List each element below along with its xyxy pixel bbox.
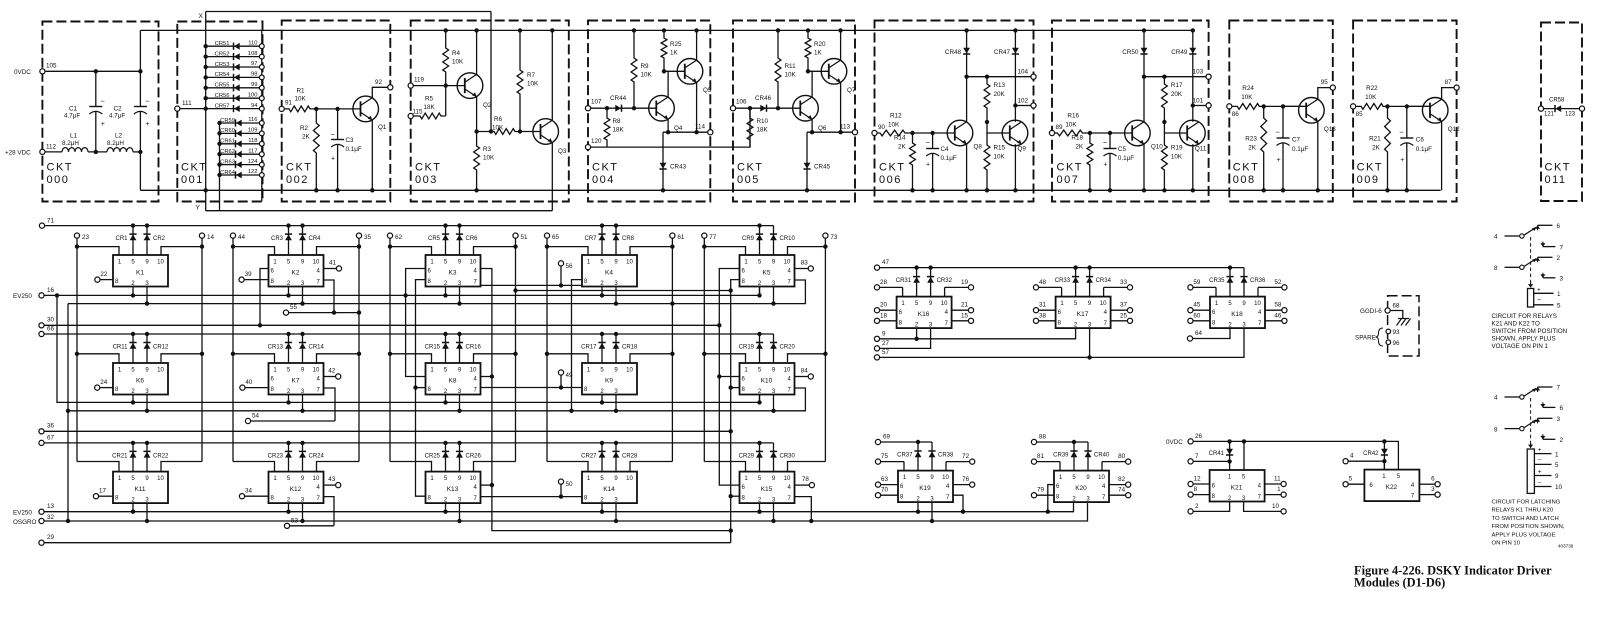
terminal 86: [1227, 104, 1232, 109]
wire K21 pin2 lead: [1193, 502, 1229, 512]
diode CR50: [1143, 30, 1145, 76]
wire 5 K22 lead: [1348, 483, 1364, 485]
svg-text:40: 40: [245, 379, 253, 386]
junction K2 pin6 30line: [258, 323, 262, 327]
wire K13 pin1 lead: [390, 462, 432, 472]
svg-text:57: 57: [882, 349, 890, 356]
wire 54 line: [251, 420, 335, 422]
spare module box: [1388, 296, 1419, 356]
junction C6 bottom: [1405, 188, 1409, 192]
junction pin8 column K15: [729, 494, 733, 498]
brace spare: [1376, 328, 1384, 346]
wire 63 lead: [881, 484, 898, 486]
junction K7 pin2: [286, 400, 290, 404]
svg-text:10K: 10K: [527, 81, 539, 88]
svg-text:2K: 2K: [302, 134, 311, 141]
svg-text:2: 2: [1195, 503, 1199, 510]
svg-text:CKT: CKT: [415, 162, 442, 174]
svg-text:8.2μH: 8.2μH: [107, 140, 124, 147]
svg-text:Q8: Q8: [974, 144, 983, 151]
svg-text:CKT: CKT: [286, 162, 313, 174]
svg-text:10: 10: [1098, 475, 1105, 481]
diode CR60: [220, 132, 262, 134]
junction K10 pin3: [771, 409, 775, 413]
svg-text:SPARE: SPARE: [1355, 335, 1376, 342]
wire column 51: [515, 238, 517, 461]
wire 28 lead: [880, 286, 903, 288]
svg-text:CR8: CR8: [622, 236, 635, 242]
wire R5 riser: [445, 86, 447, 116]
svg-text:10K: 10K: [483, 155, 495, 162]
junction R7 top rail: [518, 28, 522, 32]
svg-text:CKT: CKT: [1233, 162, 1260, 174]
wire contact2 stub4: [1505, 396, 1520, 398]
svg-text:10: 10: [1100, 301, 1107, 307]
terminal 26: [1188, 439, 1193, 444]
wire Q12 emitter: [1441, 122, 1443, 191]
wire 59 pin1 bend: [1215, 287, 1217, 296]
junction R4 base node: [444, 83, 448, 87]
svg-text:005: 005: [737, 174, 760, 186]
wire K13 pin4 lead: [481, 484, 492, 486]
resistor R17: [1162, 77, 1168, 122]
wire contact1 line3: [1543, 277, 1556, 279]
svg-text:CR33: CR33: [1055, 278, 1071, 284]
wire 1 K21 lead: [1265, 494, 1281, 496]
svg-text:30: 30: [47, 317, 55, 324]
coil c2 arrow: [1530, 443, 1532, 448]
junction column 65 row1: [545, 244, 549, 248]
svg-text:82: 82: [1118, 476, 1126, 483]
terminal 90: [872, 130, 877, 135]
wire 6 K22 lead: [1419, 483, 1435, 485]
wire K11 pin10 lead: [161, 462, 202, 472]
svg-text:K22: K22: [1386, 484, 1398, 491]
wire R6 to Q3 base: [520, 131, 541, 133]
svg-text:39: 39: [245, 271, 253, 278]
svg-text:CIRCUIT FOR RELAYS: CIRCUIT FOR RELAYS: [1492, 313, 1557, 320]
wire K17 pin3 drop: [1089, 328, 1091, 357]
diode CR22: [146, 443, 148, 472]
terminal 27: [874, 346, 879, 351]
wire 83 to pin4: [795, 268, 809, 270]
junction C1 top: [94, 69, 98, 73]
wire CR44 to Q4 base: [634, 107, 656, 109]
svg-text:CR59: CR59: [220, 118, 235, 124]
svg-text:2K: 2K: [1248, 145, 1257, 152]
wire contact2 line7: [1538, 386, 1553, 388]
svg-text:46: 46: [1274, 312, 1282, 319]
resistor R21: [1385, 106, 1391, 190]
svg-text:42: 42: [328, 368, 336, 375]
terminal 18: [874, 318, 879, 323]
junction CR47 top rail: [1013, 28, 1017, 32]
svg-text:101: 101: [1193, 97, 1204, 104]
terminal 76: [970, 482, 975, 487]
svg-text:Q10: Q10: [1151, 144, 1163, 151]
svg-text:C2: C2: [114, 106, 123, 113]
terminal 66: [39, 331, 44, 336]
svg-text:ON PIN 10: ON PIN 10: [1492, 541, 1521, 547]
terminal 120: [585, 145, 590, 150]
junction diode bus CR61: [217, 142, 221, 146]
svg-text:14: 14: [207, 234, 215, 241]
junction R21 top: [1385, 104, 1389, 108]
wire Q8 emitter drop: [966, 144, 968, 190]
junction K11 pin3: [145, 519, 149, 523]
svg-text:K14: K14: [603, 486, 615, 493]
svg-text:007: 007: [1057, 174, 1080, 186]
terminal 53: [284, 523, 289, 528]
svg-text:CR32: CR32: [937, 278, 953, 284]
svg-text:71: 71: [47, 218, 55, 225]
svg-text:009: 009: [1357, 174, 1380, 186]
diode CR51: [206, 45, 262, 47]
terminal 33: [1127, 285, 1132, 290]
wire 53 line: [290, 525, 334, 527]
wire K8 pin3 drop: [459, 395, 461, 411]
svg-text:Q4: Q4: [674, 125, 683, 132]
terminal 107: [585, 106, 590, 111]
wire K12 pin10 lead: [317, 462, 360, 472]
svg-text:CR39: CR39: [1053, 453, 1069, 459]
svg-text:+: +: [1538, 468, 1542, 475]
diode CR4: [302, 226, 304, 255]
wire K8 pin1 lead: [390, 354, 432, 363]
wire 111 to diode bus: [180, 108, 206, 110]
junction K20 pin6 EV250: [1046, 510, 1050, 514]
svg-text:61: 61: [677, 234, 685, 241]
wire 52 pin10 bend: [1257, 287, 1259, 296]
wire K3 pin4 column: [481, 269, 731, 531]
terminal 57: [874, 355, 879, 360]
junction Q2 collector rail: [474, 28, 478, 32]
svg-text:79: 79: [1037, 487, 1045, 494]
wire K10 pin2 drop: [759, 395, 761, 403]
junction K13 pin2: [443, 510, 447, 514]
resistor R25: [661, 30, 667, 71]
wire 25 lead: [1111, 320, 1128, 322]
terminal 63: [875, 482, 880, 487]
junction C5 top: [1108, 131, 1112, 135]
wire Q7 base link: [808, 70, 829, 72]
diode CR16: [459, 334, 461, 363]
wire pin3 bus row2: [68, 388, 805, 411]
terminal 32: [39, 518, 44, 523]
wire contact2 line3: [1538, 417, 1553, 419]
junction pin3 riser osgro: [66, 519, 70, 523]
diode CR14: [302, 334, 304, 363]
junction R20 top rail: [806, 28, 810, 32]
module CKT 011 box: [1541, 23, 1582, 202]
svg-text:120: 120: [591, 138, 602, 145]
wire K9 pin1 lead: [547, 354, 588, 363]
terminal 75: [875, 459, 880, 464]
diode CR1: [132, 226, 134, 255]
svg-text:K8: K8: [449, 378, 457, 385]
svg-text:GGDI-6: GGDI-6: [1360, 308, 1382, 315]
svg-text:CR20: CR20: [780, 345, 796, 351]
capacitor C2: [134, 71, 147, 152]
wire 31 lead: [1039, 309, 1056, 311]
terminal 105: [40, 69, 45, 74]
junction C2 top: [138, 69, 142, 73]
wire 68 to ground: [1390, 311, 1403, 319]
svg-text:K6: K6: [136, 378, 144, 385]
junction K10 pin2: [757, 400, 761, 404]
svg-text:−: −: [331, 130, 336, 139]
wire 69 line: [881, 441, 932, 443]
wire 37 lead: [1111, 309, 1128, 311]
junction pin3 riser row2: [66, 409, 70, 413]
svg-text:10: 10: [1555, 484, 1563, 491]
wire contact1 stub8: [1505, 266, 1520, 268]
svg-text:C5: C5: [1118, 146, 1127, 153]
svg-text:CR43: CR43: [670, 164, 687, 171]
svg-text:R1: R1: [297, 88, 306, 95]
svg-text:CKT: CKT: [1545, 162, 1572, 174]
terminal 61: [670, 233, 675, 238]
ground chassis: [1397, 319, 1411, 326]
junction Q13 emitter rail: [1316, 188, 1320, 192]
svg-text:−: −: [1538, 479, 1542, 486]
svg-text:123: 123: [1565, 112, 1576, 118]
wire coil c2 pin1: [1534, 453, 1551, 455]
svg-text:R18: R18: [1071, 135, 1083, 142]
junction K5 pin3: [771, 301, 775, 305]
svg-text:31: 31: [1039, 302, 1047, 309]
wire K5 pin8 column: [731, 280, 740, 543]
terminal 9: [874, 336, 879, 341]
wire column 77: [703, 238, 705, 461]
svg-text:113: 113: [840, 124, 851, 131]
svg-text:10: 10: [941, 301, 948, 307]
junction K5 pin2: [757, 293, 761, 297]
diode CR18: [615, 334, 617, 363]
svg-text:10: 10: [313, 476, 320, 482]
junction mid link pin8col: [729, 288, 733, 292]
svg-text:110: 110: [248, 40, 257, 46]
inductor L1: [62, 148, 88, 152]
wire X top bus: [206, 11, 491, 13]
terminal 58: [1282, 308, 1287, 313]
svg-text:+: +: [331, 156, 335, 163]
junction column 44 row1: [231, 244, 235, 248]
coil c1 arrow: [1530, 283, 1532, 288]
junction K4 pin3: [614, 301, 618, 305]
svg-text:0.1μF: 0.1μF: [1416, 146, 1432, 153]
svg-text:K2: K2: [292, 270, 300, 277]
relay K4: [582, 255, 637, 287]
junction CR23 bus: [286, 441, 290, 445]
wire coil c2 pin5: [1534, 463, 1551, 465]
diode CR13: [288, 334, 290, 363]
svg-text:0.1μF: 0.1μF: [941, 155, 957, 162]
svg-text:99: 99: [251, 82, 257, 88]
junction CR42 bottom: [1382, 459, 1386, 463]
wire contact2 stub8: [1505, 428, 1520, 430]
junction diode bus CR63: [217, 162, 221, 166]
junction K6 pin3: [145, 409, 149, 413]
terminal 19: [968, 285, 973, 290]
svg-text:116: 116: [248, 117, 257, 123]
wire Q9 collector riser: [1014, 106, 1016, 122]
svg-text:R25: R25: [670, 41, 682, 48]
svg-text:95: 95: [1321, 79, 1329, 86]
svg-text:R8: R8: [613, 118, 622, 125]
svg-text:37: 37: [1120, 302, 1128, 309]
wire ground return bottom rail: [140, 189, 1440, 191]
wire 41 to pin4: [324, 268, 337, 270]
svg-text:10K: 10K: [1065, 122, 1077, 129]
junction CR42 26line: [1382, 439, 1386, 443]
svg-text:006: 006: [879, 174, 902, 186]
terminal 17: [93, 494, 98, 499]
resistor R23: [1261, 106, 1267, 190]
terminal 15: [968, 318, 973, 323]
wire 74 lead: [1109, 494, 1126, 496]
wire K8 pin8 lead: [416, 387, 426, 389]
svg-text:18K: 18K: [424, 104, 436, 111]
wire contact2 line2: [1543, 438, 1556, 440]
wire EV250 line row1: [44, 287, 759, 296]
diode CR21: [132, 443, 134, 472]
svg-text:CR4: CR4: [309, 236, 322, 242]
junction CR27 bus: [600, 441, 604, 445]
diode CR10: [773, 226, 775, 255]
junction CR37 69line: [916, 440, 920, 444]
svg-text:R22: R22: [1366, 85, 1378, 92]
svg-text:41: 41: [329, 260, 337, 267]
terminal 91: [279, 106, 284, 111]
wire column 73: [824, 238, 826, 461]
transistor Q11: [1180, 120, 1206, 146]
svg-text:0.1μF: 0.1μF: [1118, 155, 1134, 162]
svg-text:CR30: CR30: [780, 453, 796, 459]
svg-text:R3: R3: [483, 146, 492, 153]
svg-text:VOLTAGE ON PIN 1: VOLTAGE ON PIN 1: [1492, 343, 1549, 350]
wire K4 pin8 column: [572, 280, 583, 411]
terminal 70: [875, 493, 880, 498]
svg-text:25: 25: [1120, 312, 1128, 319]
svg-text:Q9: Q9: [1018, 146, 1027, 153]
svg-text:0.1μF: 0.1μF: [1292, 146, 1308, 153]
svg-text:−: −: [1399, 128, 1404, 137]
svg-text:CR6: CR6: [466, 236, 479, 242]
wire EV250 line row3: [44, 503, 1073, 512]
wire 55 line: [289, 312, 359, 314]
junction CR24 bus: [300, 441, 304, 445]
resistor R11: [775, 30, 781, 108]
svg-text:8: 8: [1194, 486, 1198, 493]
junction R23 top: [1262, 104, 1266, 108]
wire 26 line: [1193, 441, 1398, 469]
svg-text:119: 119: [414, 77, 425, 84]
svg-text:CR63: CR63: [220, 159, 235, 165]
svg-text:33: 33: [1120, 279, 1128, 286]
contact c1 lower fixed: [1537, 257, 1539, 262]
svg-text:10: 10: [626, 260, 633, 266]
svg-text:+: +: [1103, 162, 1107, 169]
svg-text:+: +: [1400, 157, 1404, 164]
diode CR20: [773, 334, 775, 363]
svg-text:67: 67: [47, 435, 55, 442]
wire 58 lead: [1265, 309, 1282, 311]
wire 34 to pin8: [245, 495, 269, 497]
junction Q5 emitter node: [694, 130, 698, 134]
terminal 5 K22: [1343, 482, 1348, 487]
wire K12 pin2 drop: [288, 503, 290, 512]
wire 70 lead: [881, 494, 898, 496]
svg-text:CR35: CR35: [1209, 278, 1225, 284]
junction column 77 row2: [702, 352, 706, 356]
wire 0VDC top rail: [140, 29, 1192, 31]
wire 67 line: [44, 442, 773, 444]
terminal 11: [1281, 481, 1286, 486]
svg-text:Q12: Q12: [1448, 126, 1460, 133]
svg-text:58: 58: [1274, 302, 1282, 309]
svg-text:6: 6: [1431, 476, 1435, 483]
svg-text:6: 6: [1557, 223, 1561, 230]
coil c2: [1527, 449, 1534, 493]
svg-text:114: 114: [695, 124, 706, 131]
svg-text:EV250: EV250: [13, 293, 32, 300]
transistor Q12: [1422, 98, 1448, 124]
contact arm c1 upper: [1520, 234, 1524, 238]
svg-text:Q1: Q1: [378, 124, 387, 131]
wire column 14: [201, 238, 203, 461]
svg-text:K16: K16: [918, 311, 930, 318]
wire 114 line: [663, 131, 708, 133]
wire K4 pin10 lead: [630, 247, 672, 255]
wire 11 lead: [1265, 483, 1281, 485]
junction diode bus CR59: [217, 121, 221, 125]
junction R14 bottom: [910, 188, 914, 192]
svg-text:1K: 1K: [670, 50, 679, 57]
diode CR24: [302, 443, 304, 472]
junction CR39 88line: [1072, 440, 1076, 444]
junction CR16 bus: [457, 332, 461, 336]
wire K2 pin10 lead: [317, 247, 360, 255]
wire 17 to pin8: [99, 495, 113, 497]
wire pin3 riser: [67, 304, 69, 521]
svg-text:R19: R19: [1171, 145, 1183, 152]
wire 20 lead: [880, 309, 897, 311]
diode CR5: [445, 226, 447, 255]
junction R11 bottom: [776, 106, 780, 110]
svg-text:84: 84: [801, 368, 809, 375]
svg-text:+: +: [1277, 157, 1281, 164]
junction CR22 bus: [145, 441, 149, 445]
wire 78 to pin4: [795, 484, 810, 486]
terminal 48: [1033, 285, 1038, 290]
junction X riser node: [489, 129, 493, 133]
terminal 96: [1386, 340, 1391, 345]
svg-text:23: 23: [82, 234, 90, 241]
svg-text:R12: R12: [890, 113, 902, 120]
junction K19 pin3: [930, 519, 934, 523]
junction K9 pin2: [600, 400, 604, 404]
junction Q4 collector node: [662, 69, 666, 73]
wire 47 line: [880, 267, 1244, 269]
terminal 80: [1126, 459, 1131, 464]
wire K3 pin8 column: [416, 280, 426, 497]
wire 4 line: [1348, 460, 1384, 462]
wire contact1 stub4: [1505, 235, 1520, 237]
relay K9: [582, 363, 637, 395]
wire K.7-K.8 link 50: [481, 496, 583, 498]
terminal 6 K22: [1435, 482, 1440, 487]
